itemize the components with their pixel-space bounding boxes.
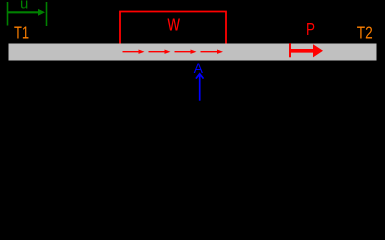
load arrow 3 — [175, 50, 197, 54]
load arrow 2 — [149, 50, 171, 54]
dimension arrow shaft — [8, 11, 40, 13]
distributed load bracket w — [120, 12, 226, 44]
load arrow 4 — [201, 50, 224, 54]
svg-text:T1: T1 — [14, 24, 29, 44]
point load P arrowhead — [313, 44, 323, 57]
support arrow shaft at A — [199, 75, 201, 101]
svg-text:T2: T2 — [357, 24, 373, 43]
dimension arrowhead — [38, 9, 45, 16]
point load P arrow shaft — [290, 49, 314, 53]
point load P arrow tail tick — [289, 43, 291, 57]
load arrow 1 — [123, 50, 145, 54]
beam (rod) — [9, 44, 377, 61]
support arrowhead at A — [196, 74, 204, 79]
svg-text:P: P — [306, 20, 315, 39]
svg-text:u: u — [20, 0, 28, 12]
dimension tick left — [7, 2, 9, 26]
svg-text:w: w — [167, 12, 181, 37]
dimension tick right — [46, 2, 48, 26]
svg-text:A: A — [194, 60, 204, 76]
